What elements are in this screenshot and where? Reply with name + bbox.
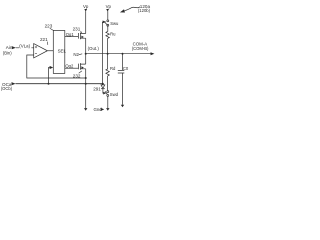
ground arrow (C0 branch) xyxy=(121,105,124,108)
resistor Rd xyxy=(106,69,109,76)
svg-text:(120b): (120b) xyxy=(138,8,151,13)
svg-text:(COM-B): (COM-B) xyxy=(132,46,149,51)
node OCa/SEL junction dot xyxy=(48,83,50,85)
switch Swd xyxy=(107,91,109,93)
label 221 xyxy=(40,37,48,42)
SEL selector box 223 xyxy=(53,31,65,74)
wire op-amp output to SEL xyxy=(47,50,53,52)
svg-text:SEL: SEL xyxy=(58,49,67,54)
wire Swd to ground xyxy=(107,96,109,108)
svg-text:Vp: Vp xyxy=(106,4,112,9)
wire Ru to COM line xyxy=(107,38,109,53)
op-amp U221 xyxy=(34,44,48,58)
node feedback junction dot xyxy=(85,77,87,79)
wire Ain to op-amp xyxy=(16,47,34,49)
figure pointer squiggle xyxy=(125,7,140,11)
Ain input arrow xyxy=(12,46,16,49)
node COM-A label xyxy=(132,42,149,52)
wire Vp to SWu xyxy=(107,11,109,20)
power Vp (right rail) xyxy=(106,4,112,9)
svg-text:N2: N2 xyxy=(73,52,79,57)
power Vp (left rail) xyxy=(83,4,89,9)
wire N2 to Q232 drain xyxy=(85,54,87,64)
resistor Ru xyxy=(106,32,109,39)
node Ru/COM junction dot xyxy=(107,53,109,55)
capacitor C0 xyxy=(118,70,125,73)
node N2 label xyxy=(73,52,79,57)
leader 231 xyxy=(81,31,82,33)
diode 291 xyxy=(102,84,104,85)
node Ain label xyxy=(3,45,13,55)
svg-text:(OCb): (OCb) xyxy=(1,86,13,91)
svg-text:Vp: Vp xyxy=(83,4,89,9)
ground arrow (Swd branch) xyxy=(106,108,109,111)
svg-text:232: 232 xyxy=(73,74,81,79)
node C0/COM junction dot xyxy=(122,53,124,55)
node Qg1 label xyxy=(66,32,75,37)
transistor Q231 xyxy=(77,33,79,39)
wire feedback from op-amp inverting input xyxy=(27,55,86,78)
svg-text:231: 231 xyxy=(73,26,81,31)
svg-text:Rd: Rd xyxy=(110,66,116,71)
node diode junction dot xyxy=(102,83,104,85)
svg-text:Ru: Ru xyxy=(110,32,116,37)
Gnd pointer arrow xyxy=(101,108,105,111)
leader 232 xyxy=(79,71,82,73)
switch SWu xyxy=(107,20,109,22)
leader 221 xyxy=(47,42,49,45)
node OCa label xyxy=(1,82,13,91)
transistor Q232 xyxy=(77,64,79,70)
node Qg2 label xyxy=(65,64,74,69)
node N2 junction dot xyxy=(85,53,87,55)
arrow into SEL control xyxy=(50,66,54,69)
node Out label xyxy=(88,46,100,51)
svg-text:Swd: Swd xyxy=(110,92,119,97)
node OCa/ground-line junction dot xyxy=(85,83,87,85)
svg-text:(Out.): (Out.) xyxy=(88,46,100,51)
label 232 xyxy=(73,74,81,79)
svg-text:C0: C0 xyxy=(123,66,129,71)
wire Q232 source to ground xyxy=(85,69,87,109)
svg-text:Qg2: Qg2 xyxy=(65,64,74,69)
svg-text:Qg1: Qg1 xyxy=(66,32,75,37)
wire gate Qg1 xyxy=(65,35,78,37)
node VLa label xyxy=(19,44,30,49)
wire SWu to Ru xyxy=(107,26,109,31)
leader 223 xyxy=(50,28,54,30)
figure label 120a (120b) xyxy=(138,4,151,13)
svg-text:221: 221 xyxy=(40,37,48,42)
wire COM to C0 xyxy=(122,54,124,71)
wire Rd to Swd xyxy=(107,76,109,91)
svg-text:(VLa): (VLa) xyxy=(19,44,30,49)
label 231 xyxy=(73,26,81,31)
node Gnd label xyxy=(94,107,103,112)
wire C0 to ground xyxy=(122,73,124,105)
wire gate Qg2 xyxy=(65,67,78,69)
COM-A output arrow xyxy=(151,52,155,55)
svg-text:223: 223 xyxy=(45,24,53,29)
svg-text:291: 291 xyxy=(93,86,101,91)
wire Q231 source to node N2 xyxy=(85,38,87,54)
label 291 xyxy=(93,86,101,91)
wire SWu control line from OCa node xyxy=(101,22,103,84)
ground arrow (Q232 branch) xyxy=(84,108,87,111)
OCa input arrow xyxy=(12,82,16,85)
wire OCa line xyxy=(16,83,103,85)
wire output COM line xyxy=(86,53,153,55)
arrow diode to Swd xyxy=(103,92,106,95)
wire Vp to Q231 drain xyxy=(85,11,87,33)
svg-text:Swu: Swu xyxy=(110,21,119,26)
svg-text:(Bin): (Bin) xyxy=(3,50,12,55)
label 223 xyxy=(45,24,53,29)
wire COM line to Rd xyxy=(107,54,109,69)
wire OCa branch up to SEL xyxy=(49,68,50,84)
